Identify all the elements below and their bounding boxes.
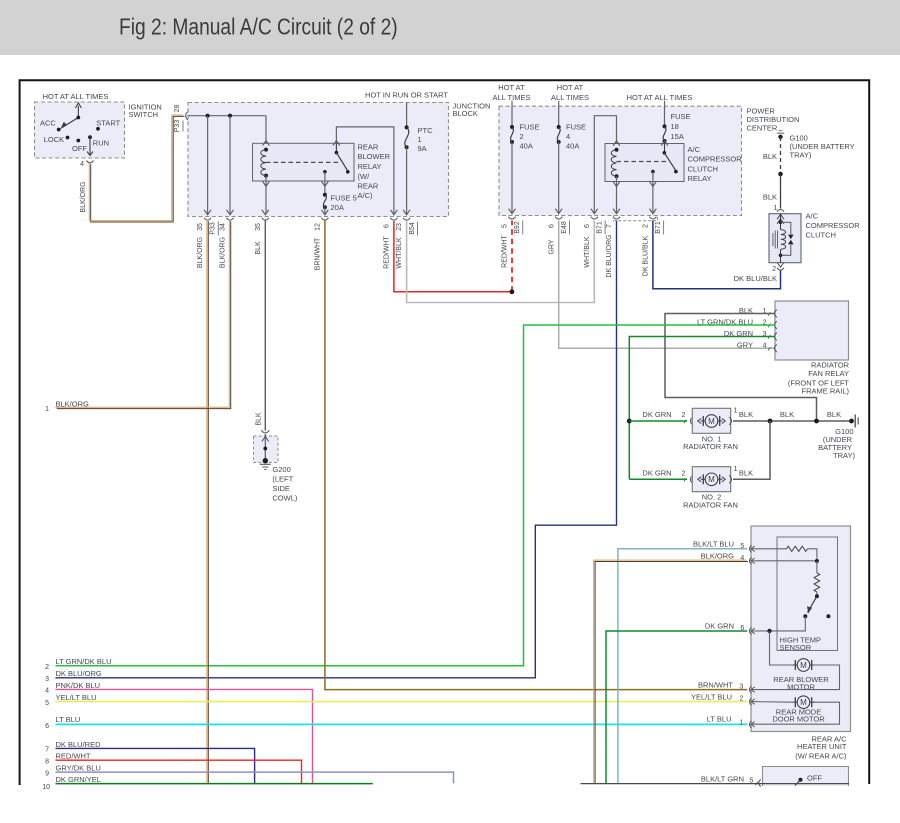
svg-text:BRN/WHT: BRN/WHT: [698, 680, 733, 689]
svg-text:E48: E48: [561, 221, 568, 234]
svg-text:9A: 9A: [418, 144, 427, 153]
wire pin4 to node: [752, 560, 817, 562]
junction node BLK: [768, 419, 773, 424]
svg-text:OFF: OFF: [807, 774, 822, 783]
clutch relay coil: [615, 148, 619, 152]
svg-text:FUSE: FUSE: [520, 123, 540, 132]
svg-text:B71: B71: [597, 221, 604, 234]
svg-text:FAN RELAY: FAN RELAY: [808, 369, 849, 378]
svg-text:1: 1: [45, 406, 49, 413]
svg-text:COMPRESSOR: COMPRESSOR: [688, 155, 743, 164]
svg-text:RADIATOR FAN: RADIATOR FAN: [683, 442, 738, 451]
svg-text:CLUTCH: CLUTCH: [688, 164, 718, 173]
svg-text:FUSE: FUSE: [566, 123, 586, 132]
svg-text:RUN: RUN: [93, 138, 109, 147]
svg-text:HOT AT ALL TIMES: HOT AT ALL TIMES: [627, 93, 693, 102]
svg-text:6: 6: [548, 224, 555, 228]
svg-text:23: 23: [396, 223, 403, 231]
ignition switch dashed box: [35, 102, 125, 158]
svg-text:G200: G200: [272, 465, 290, 474]
node: [815, 559, 819, 563]
wire relay common to pin 6 RED/WHT: [336, 127, 394, 214]
junction node RED/WHT: [510, 289, 515, 294]
diode symbol: [788, 235, 794, 240]
relay dashed actuator link: [266, 161, 339, 163]
svg-text:ALL TIMES: ALL TIMES: [493, 93, 531, 102]
svg-text:HEATER UNIT: HEATER UNIT: [797, 742, 847, 751]
svg-text:A/C): A/C): [358, 191, 374, 200]
svg-text:M: M: [708, 475, 715, 484]
svg-text:RELAY: RELAY: [358, 162, 382, 171]
svg-text:28: 28: [174, 105, 181, 113]
svg-text:2: 2: [520, 132, 524, 141]
svg-text:10: 10: [42, 784, 50, 791]
fuse 18 15A: [664, 101, 666, 127]
wire LT GRN/DK BLU fan relay pin2 (wire 2): [56, 325, 776, 666]
svg-text:SIDE: SIDE: [272, 484, 290, 493]
svg-text:BLK/ORG: BLK/ORG: [56, 399, 90, 408]
contact LOCK: [66, 136, 70, 140]
wire resistor to thermistor node: [808, 549, 817, 561]
a/c compressor clutch relay box: [605, 144, 684, 182]
fan relay pin 3: [768, 335, 770, 338]
svg-text:2: 2: [45, 664, 49, 671]
wire DK GRN to fan 1: [629, 420, 687, 422]
svg-text:1: 1: [734, 408, 738, 415]
sensor fixed resistor: [787, 546, 808, 551]
contact START: [96, 127, 100, 131]
svg-text:BLK/ORG: BLK/ORG: [197, 237, 204, 268]
svg-text:DK GRN: DK GRN: [642, 410, 671, 419]
svg-text:YEL/LT BLU: YEL/LT BLU: [691, 692, 732, 701]
svg-text:DK BLU/BLK: DK BLU/BLK: [734, 274, 777, 283]
relay switch pivot: [335, 151, 339, 155]
svg-text:COWL): COWL): [272, 494, 298, 503]
wire node to rear blower motor: [770, 631, 795, 665]
sensor switch arm: [808, 596, 817, 612]
wire fuse18 to relay switch: [664, 141, 666, 153]
relay switch output contact: [323, 170, 327, 174]
svg-text:12: 12: [315, 223, 322, 231]
page header bar: [0, 0, 900, 55]
svg-text:9: 9: [45, 770, 49, 777]
svg-text:FRAME RAIL): FRAME RAIL): [801, 386, 849, 395]
svg-text:DK BLU/ORG: DK BLU/ORG: [606, 234, 613, 277]
svg-text:6: 6: [584, 224, 591, 228]
svg-text:P33: P33: [210, 222, 217, 235]
svg-text:35: 35: [197, 223, 204, 231]
rear a/c heater unit box: [751, 526, 851, 732]
splice node: [778, 172, 783, 177]
wire RUN contact to pin 4: [89, 137, 91, 154]
svg-text:40A: 40A: [520, 142, 533, 151]
junction block top bus wire: [188, 115, 266, 117]
svg-text:6: 6: [384, 224, 391, 228]
wire 6 LT BLU: [56, 723, 748, 725]
thermistor bottom node: [815, 594, 819, 598]
svg-text:GRY/DK BLU: GRY/DK BLU: [56, 764, 101, 773]
junction node DK GRN fan 1: [627, 419, 632, 424]
svg-text:RED/WHT: RED/WHT: [56, 752, 91, 761]
svg-text:BLOWER: BLOWER: [358, 152, 391, 161]
svg-text:34: 34: [220, 223, 227, 231]
wire RED/WHT junction pin6 to PDC pin5: [394, 221, 512, 292]
wire inside G200 box: [264, 434, 266, 461]
svg-text:DK BLU/ORG: DK BLU/ORG: [56, 669, 102, 678]
svg-text:DK BLU/BLK: DK BLU/BLK: [643, 235, 650, 276]
wire pin2 to mode motor: [752, 701, 794, 704]
wire pin6 into unit: [752, 630, 770, 632]
svg-text:7: 7: [606, 224, 613, 228]
fuse 2 40A: [511, 101, 513, 127]
pdc sub-connector notch: [614, 216, 658, 221]
wire BRN/WHT junction pin12 to rear blower motor pin 3: [325, 221, 747, 690]
svg-text:4: 4: [740, 555, 744, 562]
svg-text:GRY: GRY: [548, 239, 555, 254]
svg-text:M: M: [800, 698, 807, 707]
junction pin 12 (BRN/WHT): [322, 210, 329, 215]
svg-text:M: M: [708, 417, 715, 426]
svg-text:(W/: (W/: [358, 172, 371, 181]
svg-text:8: 8: [45, 759, 49, 766]
connector P33 pin 28 into junction block: [186, 111, 189, 120]
wire to clutch pin 2: [780, 249, 782, 263]
svg-text:1: 1: [734, 466, 738, 473]
ground G100 (fans): [849, 419, 854, 424]
svg-text:18: 18: [671, 122, 679, 131]
svg-text:15A: 15A: [671, 132, 684, 141]
fan 1 connector pin 2: [684, 420, 686, 423]
junction pin 35 (BLK to G200): [262, 210, 269, 215]
clutch coil winding: [781, 230, 786, 250]
junction pin 34 (BLK/ORG): [227, 210, 234, 215]
wire 9 GRY/DK BLU: [56, 772, 454, 783]
svg-text:BLK: BLK: [739, 410, 753, 419]
junction node to pin 35: [206, 114, 210, 118]
wire 7 DK BLU/RED: [56, 748, 255, 783]
svg-text:LT GRN/DK BLU: LT GRN/DK BLU: [56, 657, 112, 666]
svg-text:SENSOR: SENSOR: [780, 643, 812, 652]
ground G100 (under battery tray) symbol: [777, 132, 784, 134]
pdc pin 5 (RED/WHT): [509, 209, 516, 214]
clutch relay dashed actuator link: [617, 161, 667, 163]
relay coil input chevron: [263, 141, 270, 146]
svg-text:PTC: PTC: [418, 126, 434, 135]
svg-text:RELAY: RELAY: [688, 174, 712, 183]
svg-text:20A: 20A: [331, 203, 344, 212]
svg-text:HOT AT ALL TIMES: HOT AT ALL TIMES: [43, 92, 109, 101]
svg-text:1: 1: [418, 135, 422, 144]
svg-text:DK GRN: DK GRN: [705, 622, 734, 631]
svg-text:LOCK: LOCK: [44, 135, 64, 144]
power distribution center dashed box: [499, 106, 742, 215]
svg-text:BLOCK: BLOCK: [453, 109, 478, 118]
svg-text:BLK: BLK: [255, 412, 262, 426]
svg-text:1: 1: [739, 720, 743, 727]
wire BLK to clutch pin 1: [780, 174, 782, 209]
wire BLK/ORG junction pin35 long run down: [207, 221, 209, 784]
svg-text:GRY: GRY: [737, 340, 753, 349]
relay coil feed from pin 6 WHT/BLK: [594, 116, 616, 213]
PTC 1 9A thermal fuse: [406, 103, 408, 128]
sensor switch contact: [803, 614, 807, 618]
svg-text:FUSE 5: FUSE 5: [331, 193, 357, 202]
wire 10 DK GRN/YEL: [56, 783, 373, 785]
svg-text:BLK/ORG: BLK/ORG: [220, 237, 227, 268]
wire BLK/LT BLU to sensor pin 5: [618, 549, 747, 784]
svg-text:3: 3: [739, 684, 743, 691]
relay switch arm: [336, 153, 347, 171]
svg-text:RADIATOR FAN: RADIATOR FAN: [683, 500, 738, 509]
svg-text:B92: B92: [514, 221, 521, 234]
svg-text:2: 2: [643, 224, 650, 228]
svg-text:3: 3: [45, 676, 49, 683]
wire relay output to pin 2: [652, 172, 654, 213]
fan relay pin 4: [768, 347, 770, 350]
svg-text:PNK/DK BLU: PNK/DK BLU: [56, 681, 101, 690]
high temp sensor box: [777, 537, 838, 651]
relay switch moving contact: [346, 170, 350, 174]
svg-text:DK BLU/RED: DK BLU/RED: [56, 740, 102, 749]
clutch relay switch arm: [664, 153, 675, 170]
svg-text:TRAY): TRAY): [790, 150, 812, 159]
wire BLK dashed to G100: [780, 137, 782, 174]
rear blower motor: [793, 664, 798, 666]
pdc pin 7 (DK BLU/ORG): [613, 209, 620, 214]
a/c compressor clutch box: [769, 214, 801, 263]
unit pin 2 connector: [749, 698, 751, 705]
svg-text:7: 7: [45, 747, 49, 754]
clutch relay switch pivot: [663, 151, 667, 155]
sensor pin 6 connector: [749, 627, 751, 634]
svg-text:WHT/BLK: WHT/BLK: [584, 236, 591, 267]
svg-text:DK GRN: DK GRN: [642, 469, 671, 478]
contact ACC: [57, 128, 61, 132]
wire WHT/BLK junction pin23 to PDC pin6: [407, 221, 595, 303]
svg-text:Fig 2: Manual A/C Circuit (2 o: Fig 2: Manual A/C Circuit (2 of 2): [119, 14, 398, 40]
wire fuse 2 to pin 5: [511, 142, 513, 213]
svg-text:LT BLU: LT BLU: [707, 715, 732, 724]
earth ground strokes: [260, 463, 271, 465]
svg-text:BLK: BLK: [739, 469, 753, 478]
clutch relay moving contact: [674, 170, 678, 174]
wire relay coil to pin 35 BLK: [265, 176, 267, 214]
ground terminal node: [263, 458, 268, 463]
svg-text:SWITCH: SWITCH: [129, 110, 159, 119]
wire 5 YEL/LT BLU: [56, 701, 748, 703]
fuse 5 symbol: [323, 193, 327, 197]
unit pin 1 connector: [749, 721, 751, 728]
wire BLK junction pin35 to G200: [264, 221, 266, 431]
wire mode motor to pin 1: [752, 702, 840, 724]
wire PTC to pin 23: [406, 147, 408, 213]
junction node BLK relay branch: [814, 419, 819, 424]
svg-text:START: START: [96, 118, 120, 127]
svg-text:BLK/LT GRN: BLK/LT GRN: [701, 775, 744, 784]
contact RUN: [88, 135, 92, 139]
switch pin 5 connector (cropped): [755, 782, 757, 785]
no.2 radiator fan motor: [701, 478, 706, 480]
svg-text:HOT IN RUN OR START: HOT IN RUN OR START: [365, 91, 448, 100]
wire 4 PNK/DK BLU: [56, 689, 313, 783]
svg-text:4: 4: [763, 343, 767, 350]
wire BLK/ORG ignition pin4 to P33-28: [91, 116, 185, 222]
svg-text:BLK: BLK: [827, 410, 841, 419]
svg-text:BLK/ORG: BLK/ORG: [701, 551, 735, 560]
wire fuse 4 to pin 6: [558, 142, 560, 213]
junction pin 23 (WHT/BLK): [403, 210, 410, 215]
junction pin 35 (BLK/ORG): [204, 210, 211, 215]
svg-text:40A: 40A: [566, 142, 579, 151]
svg-text:REAR: REAR: [358, 143, 379, 152]
wire DK BLU/ORG PDC pin7 to wire 3: [56, 221, 617, 678]
clutch coil core bars: [772, 233, 774, 246]
ignition switch arrow to HOT feed: [77, 106, 79, 118]
svg-text:BLK: BLK: [780, 410, 794, 419]
svg-text:A/C: A/C: [688, 145, 701, 154]
svg-text:WHT/BLK: WHT/BLK: [396, 237, 403, 268]
svg-text:4: 4: [80, 161, 84, 168]
svg-text:5: 5: [502, 224, 509, 228]
sensor thermistor: [816, 561, 818, 573]
wire fuse 5 to pin 12: [324, 207, 326, 213]
clutch coil input wire: [780, 214, 782, 230]
svg-text:2: 2: [682, 471, 686, 478]
clutch relay output contact: [651, 170, 655, 174]
svg-text:5: 5: [45, 700, 49, 707]
svg-text:OFF: OFF: [72, 144, 87, 153]
svg-text:2: 2: [772, 266, 776, 273]
wire to junction pin 35: [207, 116, 209, 214]
clutch coil bottom node: [779, 254, 783, 258]
no.2 radiator fan motor box: [692, 467, 730, 492]
svg-text:BLK: BLK: [763, 192, 777, 201]
svg-text:BLK/LT BLU: BLK/LT BLU: [693, 539, 734, 548]
svg-text:HOT AT: HOT AT: [498, 83, 525, 92]
svg-text:5: 5: [740, 543, 744, 550]
svg-text:BLK/ORG: BLK/ORG: [80, 181, 87, 212]
wire DK GRN to sensor pin 6: [606, 631, 747, 783]
svg-text:BLK: BLK: [255, 241, 262, 255]
svg-text:FUSE: FUSE: [671, 112, 691, 121]
splice node: [263, 447, 267, 451]
switch OFF contact: [799, 778, 803, 782]
junction node to pin 34: [228, 114, 232, 118]
svg-text:6: 6: [45, 723, 49, 730]
svg-text:A/C: A/C: [806, 211, 819, 220]
wire relay output to fuse 5: [324, 172, 326, 195]
wire to junction pin 34: [229, 116, 231, 214]
wire DK GRN fan relay pin3 to fans: [629, 337, 775, 480]
svg-text:6: 6: [740, 625, 744, 632]
ignition switch rotor arm: [63, 118, 79, 128]
wire RED/WHT dashed segment to PDC pin 5: [511, 221, 513, 292]
relay switch common from top: [333, 141, 340, 146]
wire BLK/LT GRN (cropped): [581, 783, 850, 785]
sensor n.o. contact: [826, 614, 830, 618]
title text: [119, 14, 398, 40]
svg-text:B71: B71: [655, 221, 662, 234]
sensor pin 5 connector: [749, 545, 751, 552]
wire BLK/ORG junction pin34 to wire 1: [57, 221, 231, 408]
G200 dashed ground box: [254, 436, 279, 463]
wire BLK fan relay pin1 to fan ground bus: [665, 314, 817, 422]
relay K1 coil: [264, 148, 268, 152]
junction node pin6: [767, 629, 771, 633]
wire switch to pin 6 node: [770, 616, 806, 631]
fan 2 connector pin 2: [684, 478, 686, 481]
wire bus corner down to relay coil: [265, 116, 267, 150]
svg-text:35: 35: [255, 223, 262, 231]
svg-text:CENTER: CENTER: [747, 123, 778, 132]
clutch suppression diode branch: [781, 222, 791, 234]
svg-text:4: 4: [566, 132, 570, 141]
wire DK BLU/BLK PDC pin2 to compressor clutch: [653, 221, 781, 289]
fuse 4 40A: [558, 101, 560, 127]
wire BLK fan1 node down to fan2: [733, 421, 770, 479]
wire relay coil to pin 7: [616, 176, 618, 212]
svg-text:BRN/WHT: BRN/WHT: [315, 237, 322, 270]
rear mode door motor: [793, 701, 798, 703]
G200 connector: [261, 430, 269, 433]
svg-text:M: M: [800, 661, 807, 670]
junction pin 6 (RED/WHT): [391, 210, 398, 215]
svg-text:4: 4: [45, 688, 49, 695]
pdc pin 6 (WHT/BLK): [591, 209, 598, 214]
no.1 radiator fan motor: [701, 420, 706, 422]
svg-text:DOOR MOTOR: DOOR MOTOR: [772, 715, 825, 724]
wire BLK/ORG to sensor pin 4: [595, 562, 748, 785]
unit pin 3 connector: [749, 686, 751, 693]
fan relay pin 2: [768, 324, 770, 327]
svg-text:2: 2: [682, 412, 686, 419]
svg-text:P33: P33: [174, 120, 181, 133]
svg-text:ACC: ACC: [40, 118, 56, 127]
svg-text:(LEFT: (LEFT: [272, 475, 293, 484]
sensor pin 4 connector: [749, 557, 751, 564]
pdc pin 6 (GRY): [555, 209, 562, 214]
rear blower switch box (cropped): [763, 767, 849, 787]
wire blower motor to pin 3: [752, 665, 840, 690]
svg-text:DK GRN/YEL: DK GRN/YEL: [56, 775, 101, 784]
svg-text:B54: B54: [409, 222, 416, 235]
svg-text:LT BLU: LT BLU: [56, 715, 81, 724]
svg-text:RED/WHT: RED/WHT: [384, 235, 391, 268]
svg-text:(W/ REAR A/C): (W/ REAR A/C): [795, 751, 847, 760]
wire GRY PDC pin6 to radiator fan relay pin4: [559, 221, 775, 349]
junction block dashed box: [188, 103, 449, 217]
radiator fan relay box: [775, 301, 849, 360]
svg-text:CLUTCH: CLUTCH: [806, 230, 836, 239]
no.1 radiator fan motor box: [692, 408, 730, 433]
svg-text:ALL TIMES: ALL TIMES: [551, 93, 589, 102]
wire 8 RED/WHT: [56, 760, 302, 783]
svg-text:YEL/LT BLU: YEL/LT BLU: [56, 693, 97, 702]
rear blower relay box: [253, 143, 355, 181]
svg-text:REAR: REAR: [358, 181, 379, 190]
pdc pin 2 (DK BLU/BLK): [650, 209, 657, 214]
svg-text:HOT AT: HOT AT: [557, 83, 584, 92]
svg-text:RED/WHT: RED/WHT: [502, 234, 509, 267]
svg-text:COMPRESSOR: COMPRESSOR: [806, 221, 861, 230]
contact OFF: [76, 139, 80, 143]
fan relay pin 1: [768, 312, 770, 315]
wire into sensor resistor: [752, 548, 787, 550]
svg-text:TRAY): TRAY): [833, 451, 855, 460]
svg-text:BLK: BLK: [763, 152, 777, 161]
wire BLK fan1 to ground bus: [733, 420, 852, 422]
wire DK GRN to fan 2: [629, 478, 687, 480]
